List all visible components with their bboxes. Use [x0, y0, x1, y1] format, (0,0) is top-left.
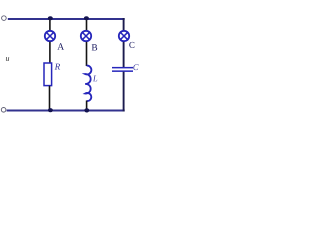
capacitor plate top	[112, 67, 133, 69]
junction bottom A	[48, 108, 53, 112]
label C lamp	[129, 42, 134, 48]
wire inductor to bottom bus	[86, 101, 88, 111]
label B	[92, 44, 97, 50]
resistor R	[44, 63, 52, 86]
inductor L coil	[85, 66, 91, 101]
junction top B	[84, 16, 89, 20]
wire lamp B to inductor	[86, 42, 88, 66]
junction bottom B	[84, 108, 89, 112]
terminal top-left	[2, 16, 7, 21]
wire capacitor to bottom bus	[123, 72, 125, 112]
wire top bus	[8, 18, 125, 20]
wire branch A upper	[49, 19, 51, 30]
lamp A	[45, 31, 55, 41]
label L	[93, 76, 97, 82]
terminal bottom-left	[1, 108, 6, 113]
wire bottom bus	[7, 109, 125, 111]
label u	[6, 57, 9, 61]
wire branch B upper	[86, 19, 88, 30]
label C capacitor	[133, 64, 138, 70]
wire lamp C to capacitor	[123, 42, 125, 67]
label A	[57, 43, 64, 49]
lamp B	[81, 31, 91, 41]
wire lamp A to resistor	[49, 42, 51, 63]
junction top A	[48, 16, 53, 20]
capacitor plate bottom	[112, 70, 133, 72]
wire right side upper	[123, 18, 125, 30]
label R	[55, 64, 61, 70]
wire resistor to bottom bus	[49, 86, 51, 110]
lamp C	[119, 31, 129, 41]
